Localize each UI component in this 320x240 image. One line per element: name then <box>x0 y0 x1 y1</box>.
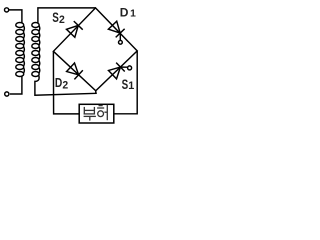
diode D2 (lower-left edge) <box>67 63 83 79</box>
load box (resistor block) <box>79 104 114 123</box>
thyristor S1 with gate terminal (lower-right edge) <box>108 63 131 79</box>
wire primary top lead <box>9 10 22 23</box>
wire left DC rail to load <box>53 51 79 114</box>
inductor secondary winding <box>32 23 40 77</box>
terminal top-left <box>5 8 9 12</box>
diode D1 with gate terminal (upper-right edge) <box>108 21 124 44</box>
label 부하 (load) drawn as strokes <box>84 105 108 121</box>
wire secondary top lead and top AC node wire to bridge <box>38 8 96 23</box>
wire right DC rail to load <box>114 51 137 114</box>
wire secondary bottom lead to bridge bottom node <box>35 75 97 95</box>
svg-text:2: 2 <box>59 14 65 26</box>
svg-text:2: 2 <box>62 80 68 92</box>
svg-text:1: 1 <box>128 80 134 92</box>
svg-text:D: D <box>55 75 62 90</box>
label S2 <box>52 10 65 26</box>
thyristor S2 (diode symbol on upper-left edge) <box>66 21 82 37</box>
svg-text:1: 1 <box>130 9 136 20</box>
wire bridge diamond (4 edges connecting nodes top/right/bottom/left) <box>53 8 137 91</box>
inductor primary winding <box>16 23 25 77</box>
부 <box>83 107 85 115</box>
svg-text:D: D <box>120 6 129 20</box>
svg-text:S: S <box>52 10 59 25</box>
label D2 <box>55 75 68 92</box>
wire primary bottom lead <box>10 76 22 94</box>
label D1 <box>120 6 136 20</box>
label S1 <box>122 77 135 92</box>
terminal bottom-left <box>5 92 9 96</box>
하 <box>99 105 103 107</box>
